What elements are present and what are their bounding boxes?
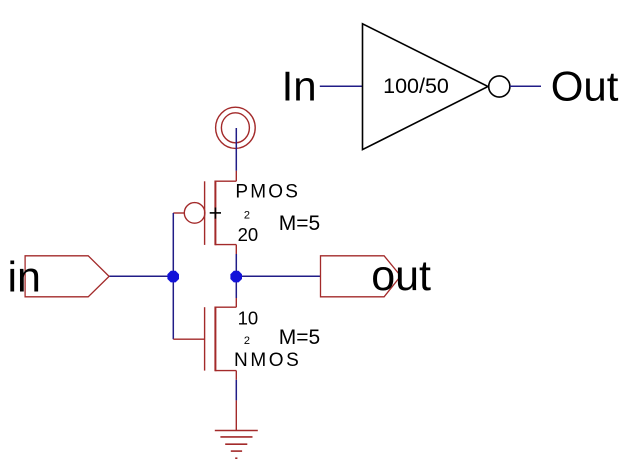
label NMOS <box>234 350 301 371</box>
inverter output bubble <box>489 76 510 97</box>
label In <box>282 63 317 110</box>
NMOS M=5 <box>279 326 320 349</box>
port in <box>25 256 109 297</box>
label in <box>8 253 41 301</box>
PMOS superscript 2 <box>244 210 250 222</box>
label PMOS <box>235 181 300 202</box>
svg-text:2: 2 <box>244 210 250 222</box>
PMOS bulk plus mark <box>210 208 221 219</box>
svg-text:M=5: M=5 <box>279 212 320 235</box>
power VDD symbol <box>216 107 256 148</box>
label out <box>371 252 431 300</box>
PMOS M=5 <box>279 212 320 235</box>
transistor NMOS <box>173 298 236 380</box>
node gate junction dot <box>167 271 179 283</box>
wire drain vertical <box>235 254 237 298</box>
wire gate vertical <box>172 213 174 339</box>
label Out <box>551 63 619 110</box>
wire in port to gate node <box>109 275 173 277</box>
port out <box>321 256 401 297</box>
ground <box>215 400 258 458</box>
svg-text:PMOS: PMOS <box>235 181 300 202</box>
svg-text:out: out <box>371 252 431 300</box>
svg-text:in: in <box>8 253 41 301</box>
node output junction dot <box>230 271 242 283</box>
svg-text:100/50: 100/50 <box>383 74 449 98</box>
svg-text:20: 20 <box>238 224 259 245</box>
value label 100/50 <box>383 74 449 98</box>
svg-text:Out: Out <box>551 63 619 110</box>
PMOS width value 20 <box>238 224 259 245</box>
wire inverter output to Out <box>510 85 541 87</box>
svg-text:NMOS: NMOS <box>234 350 301 371</box>
svg-text:10: 10 <box>238 307 259 328</box>
svg-text:In: In <box>282 63 317 110</box>
wire output node to out port <box>236 275 320 277</box>
wire In to inverter input <box>320 85 363 87</box>
svg-text:2: 2 <box>244 335 250 347</box>
wire VDD to PMOS source <box>235 128 237 171</box>
transistor PMOS <box>173 171 236 254</box>
svg-text:M=5: M=5 <box>279 326 320 349</box>
wire NMOS source to ground <box>235 380 237 401</box>
NMOS superscript 2 <box>244 335 250 347</box>
op-amp U1 inverter triangle <box>363 24 489 150</box>
NMOS width value 10 <box>238 307 259 328</box>
